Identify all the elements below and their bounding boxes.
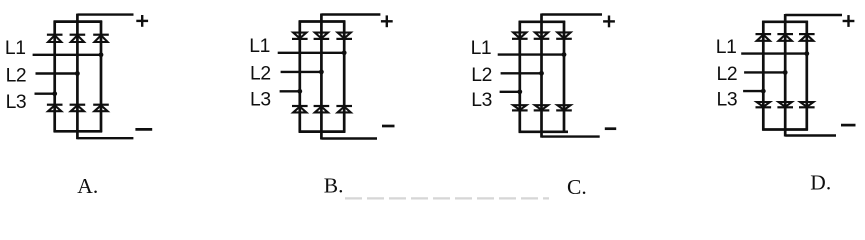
terminal: minus (-) output of bridge A (135, 128, 152, 131)
wire: negative DC lead of bridge C (542, 135, 600, 137)
node: junction L2 to leg 2 of bridge D (783, 70, 788, 75)
node: junction L3 to leg 1 of bridge C (517, 89, 522, 94)
wire: input L2 of bridge B (281, 71, 322, 73)
wire: top cathode bus of bridge B (299, 20, 346, 23)
wire: input L2 of bridge A (36, 72, 78, 74)
svg-text:L1: L1 (249, 36, 270, 57)
svg-text:D.: D. (810, 171, 831, 195)
svg-text:L1: L1 (471, 38, 492, 59)
node: junction L1 to leg 3 of bridge A (99, 52, 104, 57)
svg-text:L3: L3 (471, 90, 492, 111)
wire: positive DC lead of bridge A (77, 13, 133, 15)
terminal: minus (-) output of bridge B (382, 125, 395, 128)
terminal: plus (+) output of bridge C (603, 16, 615, 28)
diode V5 (bottom row, leg 2) of bridge B (314, 106, 330, 112)
diode V6 (bottom row, leg 3) of bridge C (556, 105, 572, 110)
wire: negative DC lead of bridge B (321, 137, 377, 139)
diode V6 (bottom row, leg 3) of bridge B (336, 106, 352, 112)
diode V5 (bottom row, leg 2) of bridge A (70, 105, 86, 112)
diode V2 (top row, leg 2) of bridge B (314, 33, 330, 39)
wire: phase leg 3 (right column) of bridge B (343, 21, 346, 133)
wire: input L3 of bridge D (743, 90, 763, 92)
node: junction L1 to leg 3 of bridge D (804, 51, 809, 56)
diode V1 (top row, leg 1) of bridge B (292, 33, 308, 39)
diode V2 (top row, leg 2) of bridge A (70, 35, 86, 42)
terminal: plus (+) output of bridge D (843, 15, 855, 27)
svg-text:L2: L2 (717, 64, 738, 85)
diode V4 (bottom row, leg 1) of bridge B (292, 106, 308, 112)
wire: positive DC lead of bridge B (321, 13, 380, 15)
svg-text:B.: B. (324, 174, 344, 198)
wire: input L3 of bridge A (35, 92, 55, 94)
node: junction L3 to leg 1 of bridge D (761, 89, 766, 94)
diode V4 (bottom row, leg 1) of bridge C (512, 105, 528, 110)
wire: phase leg 2 (middle column) of bridge A (76, 14, 79, 140)
wire: input L1 of bridge A (33, 54, 101, 56)
wire: positive DC lead of bridge D (785, 14, 842, 16)
svg-text:L2: L2 (250, 64, 271, 85)
node: junction L2 to leg 2 of bridge A (75, 71, 80, 76)
diode V2 (top row, leg 2) of bridge C (534, 32, 550, 38)
diode V3 (top row, leg 3) of bridge D (799, 34, 815, 41)
wire: bottom anode bus of bridge D (762, 128, 808, 131)
wire: negative DC lead of bridge A (77, 137, 133, 139)
svg-text:L2: L2 (471, 65, 492, 86)
wire: bottom anode bus of bridge C (519, 130, 568, 133)
wire: phase leg 1 (left column) of bridge D (762, 21, 765, 131)
diode V5 (bottom row, leg 2) of bridge D (777, 102, 793, 107)
wire: bottom anode bus of bridge A (54, 130, 103, 133)
diode V3 (top row, leg 3) of bridge B (336, 33, 352, 39)
wire: input L1 of bridge D (741, 52, 807, 54)
wire: input L1 of bridge B (278, 52, 345, 54)
wire: phase leg 3 (right column) of bridge D (805, 21, 808, 131)
node: junction L2 to leg 2 of bridge B (319, 70, 324, 75)
terminal: plus (+) output of bridge A (136, 15, 148, 27)
diode V5 (bottom row, leg 2) of bridge C (534, 105, 550, 110)
diode V6 (bottom row, leg 3) of bridge D (799, 102, 815, 107)
node: junction L1 to leg 3 of bridge C (562, 52, 567, 57)
diode V6 (bottom row, leg 3) of bridge A (93, 105, 109, 112)
svg-text:L3: L3 (250, 90, 271, 111)
wire: input L3 of bridge B (280, 90, 300, 92)
diode V4 (bottom row, leg 1) of bridge A (47, 105, 63, 112)
diode V2 (top row, leg 2) of bridge D (777, 34, 793, 41)
node: junction L3 to leg 1 of bridge B (297, 89, 302, 94)
svg-text:C.: C. (567, 175, 587, 199)
wire: bottom anode bus of bridge B (299, 130, 346, 133)
wire: phase leg 1 (left column) of bridge A (53, 21, 56, 133)
wire: phase leg 3 (right column) of bridge C (563, 21, 566, 133)
wire: positive DC lead of bridge C (542, 13, 603, 15)
diode V3 (top row, leg 3) of bridge A (93, 35, 109, 42)
terminal: minus (-) output of bridge C (605, 127, 616, 130)
svg-text:L1: L1 (5, 38, 26, 59)
svg-text:L3: L3 (6, 92, 27, 113)
terminal: minus (-) output of bridge D (841, 124, 856, 127)
wire: negative DC lead of bridge D (785, 134, 836, 136)
diode V1 (top row, leg 1) of bridge A (47, 35, 63, 42)
wire: phase leg 1 (left column) of bridge B (298, 21, 301, 133)
wire: top cathode bus of bridge D (762, 20, 808, 23)
svg-text:L3: L3 (717, 89, 738, 110)
wire: phase leg 2 (middle column) of bridge B (320, 14, 323, 140)
wire: input L2 of bridge D (744, 71, 785, 73)
svg-text:L1: L1 (716, 37, 737, 58)
faint scan artifact line at bottom (345, 197, 549, 199)
wire: input L2 of bridge C (501, 72, 542, 74)
wire: top cathode bus of bridge C (519, 20, 565, 23)
wire: input L3 of bridge C (500, 91, 520, 93)
svg-text:L2: L2 (6, 65, 27, 86)
wire: phase leg 1 (left column) of bridge C (518, 21, 521, 133)
wire: phase leg 3 (right column) of bridge A (100, 21, 103, 133)
wire: input L1 of bridge C (498, 53, 564, 55)
wire: top cathode bus of bridge A (54, 20, 103, 23)
node: junction L3 to leg 1 of bridge A (52, 91, 57, 96)
wire: phase leg 2 (middle column) of bridge C (540, 14, 543, 138)
svg-text:A.: A. (77, 174, 98, 198)
diode V3 (top row, leg 3) of bridge C (556, 32, 572, 38)
wire: phase leg 2 (middle column) of bridge D (784, 14, 787, 137)
diode V1 (top row, leg 1) of bridge D (756, 34, 772, 41)
diode V1 (top row, leg 1) of bridge C (512, 32, 528, 38)
node: junction L1 to leg 3 of bridge B (342, 50, 347, 55)
node: junction L2 to leg 2 of bridge C (539, 71, 544, 76)
terminal: plus (+) output of bridge B (381, 15, 393, 27)
diode V4 (bottom row, leg 1) of bridge D (756, 102, 772, 107)
